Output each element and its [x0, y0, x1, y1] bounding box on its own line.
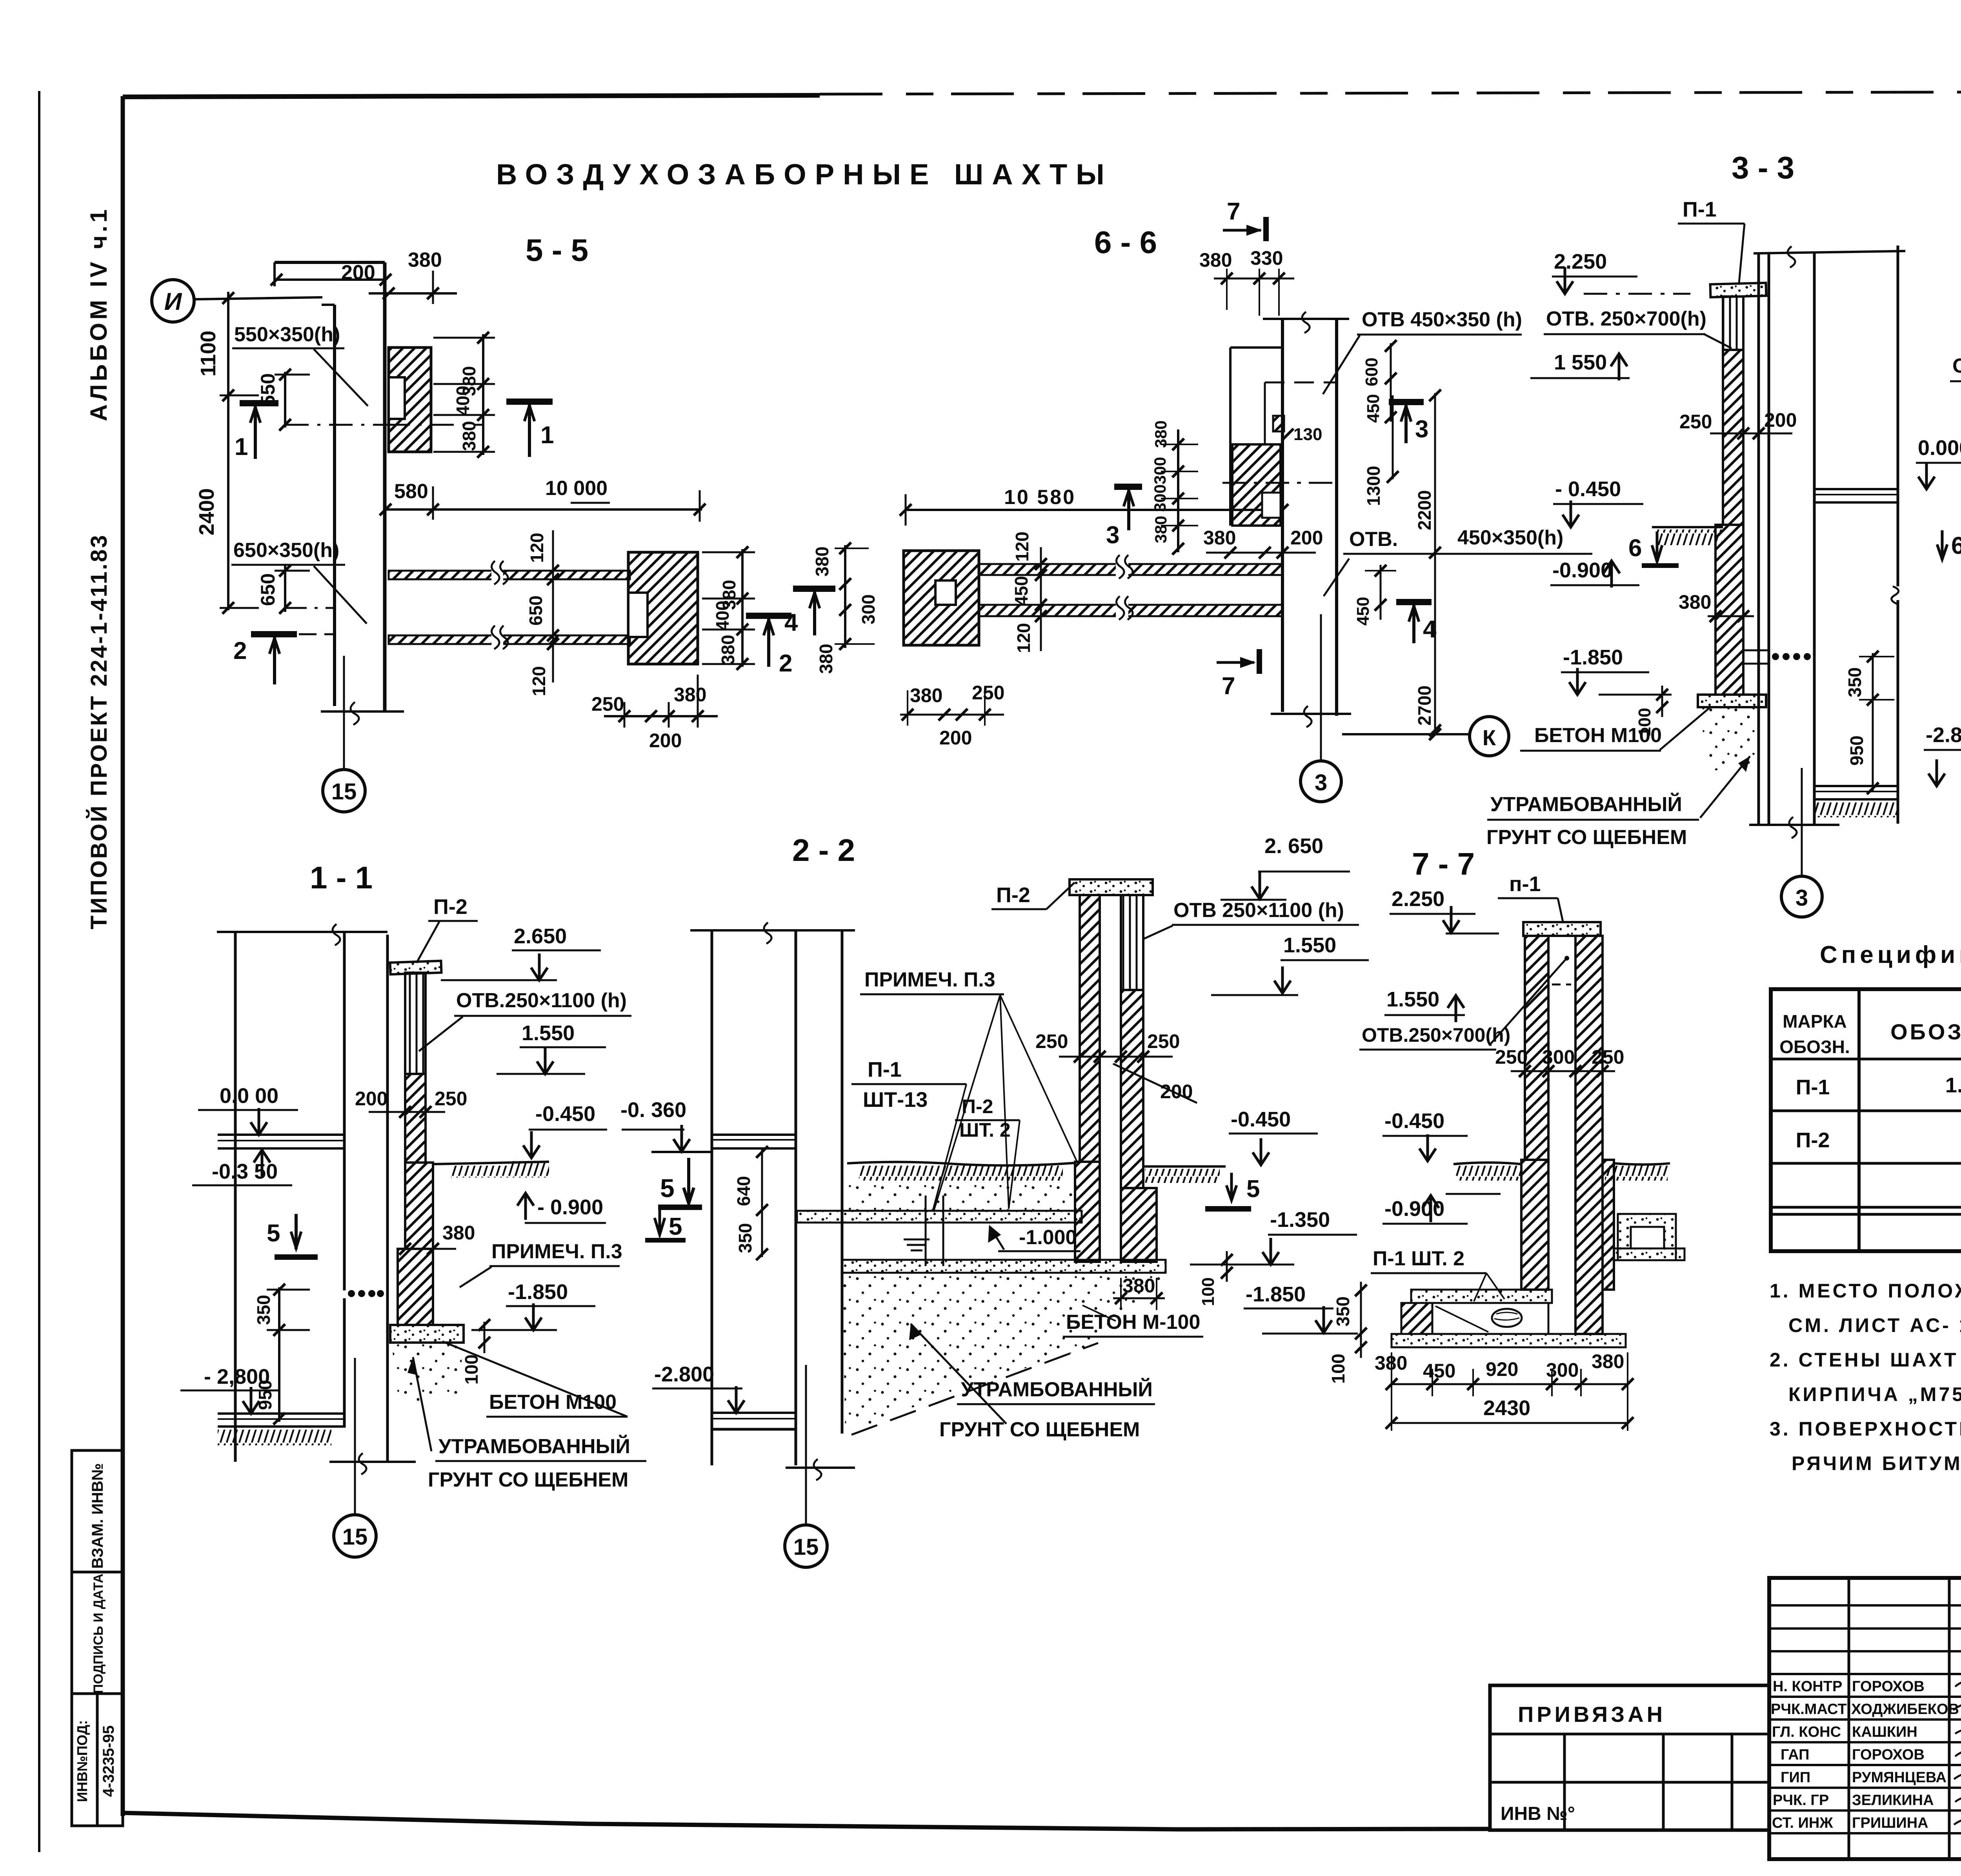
svg-text:380: 380 [1592, 1350, 1624, 1372]
svg-text:1100: 1100 [196, 331, 220, 377]
svg-text:950: 950 [1846, 735, 1867, 766]
soil band upper [847, 1181, 1079, 1211]
svg-text:100: 100 [461, 1354, 482, 1385]
svg-text:П-1: П-1 [1683, 198, 1717, 221]
name table texts [1771, 1678, 1959, 1831]
svg-text:2. 650: 2. 650 [1264, 834, 1323, 858]
axis 3 circle [1320, 614, 1322, 760]
svg-text:100: 100 [1328, 1354, 1348, 1384]
svg-text:380: 380 [408, 249, 442, 271]
privyazan box [1490, 1685, 1769, 1830]
svg-text:350: 350 [735, 1223, 755, 1253]
dim 650 left [284, 566, 286, 612]
svg-text:250: 250 [1592, 1046, 1624, 1068]
svg-text:350: 350 [1845, 667, 1865, 697]
svg-text:И: И [164, 288, 182, 315]
svg-text:200: 200 [355, 1088, 387, 1110]
svg-text:380: 380 [1151, 420, 1170, 448]
6 markers [1937, 530, 1947, 559]
duct break marks [1116, 560, 1128, 579]
svg-text:ВЗАМ. ИНВ№: ВЗАМ. ИНВ№ [89, 1463, 106, 1569]
axis circle 15 [323, 770, 365, 812]
frame top border solid part [123, 95, 820, 97]
dim 550 [284, 372, 286, 428]
svg-text:10 580: 10 580 [1004, 486, 1076, 509]
dims col 380/300/300/380 [1177, 429, 1179, 552]
ground line right of shaft [433, 1162, 549, 1164]
svg-text:1. МЕСТО ПОЛОЖЕНИЕ ВОЗДУХОЗА: 1. МЕСТО ПОЛОЖЕНИЕ ВОЗДУХОЗАБОРНЫХ ШАХТ … [1770, 1280, 1961, 1302]
svg-text:10 000: 10 000 [545, 477, 608, 500]
svg-text:3. ПОВЕРХНОСТИ СОПРИКАСАЮЩИЕС: 3. ПОВЕРХНОСТИ СОПРИКАСАЮЩИЕСЯ С ЗЕМЛЕЙ … [1770, 1417, 1961, 1440]
svg-text:380: 380 [910, 684, 942, 706]
duct bottom wall [979, 605, 1282, 616]
dims 350/950 [278, 1287, 280, 1422]
svg-text:300: 300 [1151, 457, 1169, 484]
dim column 380/300/380 right [844, 545, 846, 648]
chamber interior [1432, 1303, 1548, 1334]
svg-text:2.250: 2.250 [1554, 250, 1607, 273]
svg-text:БЕТОН М100: БЕТОН М100 [489, 1391, 617, 1414]
left hatched block [904, 551, 979, 645]
svg-text:380: 380 [674, 684, 706, 706]
svg-text:ПРИМЕЧ. П.3: ПРИМЕЧ. П.3 [864, 968, 995, 991]
svg-text:-2.800: -2.800 [1926, 723, 1961, 747]
svg-text:6: 6 [1951, 532, 1961, 559]
svg-text:П-2: П-2 [996, 883, 1030, 907]
svg-text:3 - 3: 3 - 3 [1732, 150, 1794, 185]
svg-text:ГРУНТ СО ЩЕБНЕМ: ГРУНТ СО ЩЕБНЕМ [1486, 826, 1687, 849]
svg-text:4: 4 [1423, 616, 1437, 643]
building wall lines [1757, 253, 1760, 825]
svg-text:120: 120 [1013, 623, 1034, 653]
svg-text:1 550: 1 550 [1554, 351, 1607, 374]
dims 600/450 [1390, 343, 1392, 422]
bottom break [786, 1467, 855, 1469]
П-1 top plate [1523, 922, 1601, 936]
svg-text:380: 380 [459, 421, 479, 451]
svg-text:380: 380 [816, 644, 836, 674]
svg-text:РЯЧИМ БИТУМОМ ЗА 2 РАЗА.: РЯЧИМ БИТУМОМ ЗА 2 РАЗА. [1792, 1452, 1961, 1474]
shaft opening stripes [1723, 297, 1743, 350]
svg-text:ИНВ №°: ИНВ №° [1501, 1803, 1575, 1824]
svg-text:-1.850: -1.850 [508, 1280, 568, 1304]
svg-text:15: 15 [342, 1524, 368, 1550]
svg-text:2: 2 [233, 637, 247, 664]
svg-text:650×350(h): 650×350(h) [233, 539, 339, 562]
water table symbol [904, 1239, 930, 1241]
svg-text:-0.450: -0.450 [1231, 1108, 1291, 1131]
svg-text:- 0.450: - 0.450 [1555, 477, 1621, 501]
svg-text:2200: 2200 [1414, 490, 1435, 530]
svg-text:2: 2 [779, 650, 792, 677]
svg-text:ТИПОВОЙ ПРОЕКТ 224-1-411.83: ТИПОВОЙ ПРОЕКТ 224-1-411.83 [86, 534, 112, 930]
dim line 1100/2400 [227, 292, 229, 610]
duct break marks [491, 567, 503, 583]
axis circle И [152, 280, 194, 322]
footing [390, 1325, 464, 1343]
wall top cap [275, 261, 385, 264]
section marker 4 right [793, 586, 835, 592]
shaft right wall hatched [1121, 990, 1143, 1188]
svg-text:450: 450 [1353, 597, 1373, 626]
svg-text:ЗЕЛИКИНА: ЗЕЛИКИНА [1852, 1792, 1934, 1809]
dim 100 right [1226, 1251, 1228, 1282]
footing slab [1698, 695, 1766, 707]
section marker 1 left [240, 400, 278, 406]
svg-text:РУМЯНЦЕВА: РУМЯНЦЕВА [1852, 1769, 1946, 1786]
svg-text:400: 400 [712, 600, 733, 631]
wall 5-5 left line [333, 305, 336, 706]
svg-text:350: 350 [1333, 1296, 1353, 1326]
svg-text:РЧК. ГР: РЧК. ГР [1773, 1792, 1829, 1809]
svg-text:640: 640 [733, 1176, 754, 1206]
shaft opening stripes [405, 973, 426, 1074]
svg-text:15: 15 [793, 1534, 819, 1560]
svg-text:ИНВ№ПОД:: ИНВ№ПОД: [74, 1720, 90, 1802]
svg-text:ОТВ. 250×700(h): ОТВ. 250×700(h) [1546, 308, 1706, 330]
svg-text:УТРАМБОВАННЫЙ: УТРАМБОВАННЫЙ [1490, 793, 1682, 816]
svg-text:ГРУНТ СО ЩЕБНЕМ: ГРУНТ СО ЩЕБНЕМ [428, 1468, 628, 1491]
upper duct outline [1229, 348, 1232, 526]
svg-text:ГРИШИНА: ГРИШИНА [1852, 1815, 1928, 1831]
svg-text:ОТВ.250×700(h): ОТВ.250×700(h) [1362, 1024, 1510, 1046]
svg-text:2700: 2700 [1414, 686, 1435, 726]
svg-text:3: 3 [1795, 885, 1808, 911]
svg-text:380: 380 [1203, 527, 1236, 549]
svg-text:300: 300 [1542, 1046, 1575, 1068]
dim 2200 / 2700 [1434, 393, 1436, 733]
top line with break [217, 931, 387, 933]
svg-text:ШТ. 2: ШТ. 2 [959, 1119, 1011, 1141]
svg-text:ОТВ 250×1100 (h): ОТВ 250×1100 (h) [1173, 899, 1344, 922]
svg-text:СТ. ИНЖ: СТ. ИНЖ [1772, 1815, 1833, 1831]
shaft right jamb stripes [1121, 895, 1143, 990]
svg-text:ОТВ.250×1100 (h): ОТВ.250×1100 (h) [456, 989, 627, 1012]
floor slab -2.800 [1814, 785, 1898, 787]
chamber left block [1401, 1303, 1432, 1334]
name table [1769, 1578, 1961, 1859]
right small duct element [1618, 1214, 1676, 1260]
svg-text:5: 5 [669, 1213, 682, 1240]
duct dims 120/450/120 [1040, 547, 1042, 651]
svg-text:380: 380 [1151, 516, 1170, 543]
svg-text:350: 350 [253, 1295, 274, 1325]
svg-text:580: 580 [394, 480, 428, 503]
shaft right wall [1575, 936, 1603, 1334]
svg-text:- 0.900: - 0.900 [537, 1195, 603, 1219]
5 marker small [655, 1205, 665, 1235]
floor slab 0.000 [218, 1134, 344, 1136]
dim 100 [484, 1322, 486, 1353]
svg-text:3: 3 [1415, 416, 1428, 443]
floor slab -2.800 [712, 1412, 796, 1414]
svg-text:1: 1 [540, 422, 554, 449]
svg-text:МАРКА: МАРКА [1783, 1011, 1847, 1032]
shaft wall hatched [1723, 350, 1743, 525]
big hatched block right [628, 552, 698, 664]
svg-text:380: 380 [1679, 591, 1711, 613]
svg-text:3: 3 [1315, 770, 1327, 795]
section marker 2 [251, 631, 297, 637]
svg-text:250: 250 [435, 1088, 467, 1110]
duct top wall [979, 564, 1282, 575]
svg-text:-0.900: -0.900 [1552, 559, 1612, 582]
ground right of shaft [1144, 1165, 1226, 1168]
svg-text:1. 243. 2: 1. 243. 2 [1945, 1074, 1961, 1097]
svg-text:-0.450: -0.450 [1384, 1109, 1444, 1133]
shaft wall hatched [405, 1074, 426, 1163]
svg-text:ХОДЖИБЕКОВ: ХОДЖИБЕКОВ [1851, 1701, 1959, 1718]
svg-text:-0.450: -0.450 [535, 1102, 595, 1126]
svg-text:-1.350: -1.350 [1270, 1208, 1330, 1232]
svg-text:250: 250 [1495, 1046, 1528, 1068]
svg-text:ОБОЗНАЧЕНИЕ: ОБОЗНАЧЕНИЕ [1890, 1019, 1961, 1044]
soil stipple below [842, 1275, 1166, 1434]
wall 5-5 right line [383, 262, 387, 711]
axis circle 15 [334, 1515, 376, 1557]
shaft left wall [1080, 895, 1100, 1162]
svg-text:6 - 6: 6 - 6 [1094, 225, 1157, 260]
svg-text:15: 15 [331, 779, 357, 804]
svg-text:200: 200 [1764, 409, 1797, 431]
svg-text:600: 600 [1362, 358, 1381, 386]
svg-text:5 - 5: 5 - 5 [526, 233, 588, 267]
svg-text:РЧК.МАСТ: РЧК.МАСТ [1771, 1701, 1847, 1718]
svg-text:КИРПИЧА „М75“ НА РАСТВОРЕ: КИРПИЧА „М75“ НА РАСТВОРЕ „ М-50“ [1788, 1383, 1961, 1405]
svg-text:250: 250 [1679, 411, 1712, 433]
svg-text:2.650: 2.650 [514, 924, 567, 948]
svg-text:ВОЗДУХОЗАБОРНЫЕ ШАХТЫ: ВОЗДУХОЗАБОРНЫЕ ШАХТЫ [496, 158, 1113, 191]
svg-text:2.250: 2.250 [1392, 887, 1444, 911]
svg-text:ГИП: ГИП [1781, 1769, 1810, 1786]
svg-text:250: 250 [1147, 1030, 1180, 1052]
svg-text:-1.000: -1.000 [1019, 1226, 1077, 1249]
svg-text:450: 450 [1423, 1360, 1455, 1382]
svg-text:БЕТОН М-100: БЕТОН М-100 [1066, 1311, 1200, 1334]
svg-text:450×350(h): 450×350(h) [1457, 526, 1563, 549]
svg-text:7: 7 [1222, 673, 1235, 700]
svg-text:920: 920 [1486, 1358, 1518, 1380]
svg-text:200: 200 [1290, 527, 1323, 549]
svg-text:380: 380 [442, 1222, 475, 1244]
center hatched block [1232, 444, 1281, 526]
left stamp column table [72, 1450, 123, 1826]
svg-text:380: 380 [718, 635, 738, 665]
strip break marks [925, 1195, 927, 1266]
leader to utrambovanny [911, 1324, 1006, 1424]
svg-text:100: 100 [1199, 1277, 1218, 1306]
svg-text:П-2: П-2 [433, 895, 468, 919]
svg-text:п-1: п-1 [1509, 872, 1541, 896]
duct top wall [389, 571, 630, 579]
frame top border dashed part [820, 91, 1961, 94]
svg-text:1 - 1: 1 - 1 [310, 860, 373, 895]
building wall lines [711, 930, 713, 1465]
svg-text:ГОРОХОВ: ГОРОХОВ [1852, 1678, 1925, 1695]
svg-text:300: 300 [858, 594, 879, 624]
section marker 2 right [746, 613, 791, 619]
svg-text:2430: 2430 [1483, 1396, 1530, 1420]
svg-text:250: 250 [591, 693, 624, 715]
svg-text:3: 3 [1106, 522, 1119, 549]
svg-text:ГРУНТ СО ЩЕБНЕМ: ГРУНТ СО ЩЕБНЕМ [939, 1418, 1140, 1441]
svg-text:650: 650 [526, 595, 546, 626]
svg-text:К: К [1483, 725, 1496, 750]
svg-text:1.550: 1.550 [522, 1021, 575, 1045]
section marker 7 bottom [1217, 661, 1254, 664]
dim 1300 [1392, 395, 1394, 479]
svg-text:0.000: 0.000 [1918, 436, 1961, 460]
dims right of block [741, 549, 744, 667]
floor slab 0.000 [1814, 488, 1898, 490]
dots row [1772, 653, 1779, 660]
svg-text:-2.800: -2.800 [654, 1363, 714, 1386]
svg-text:6: 6 [1628, 535, 1642, 562]
dims 640/350 [761, 1149, 763, 1257]
dims 350/100 [1360, 1282, 1362, 1358]
chamber bottom plate [1392, 1334, 1626, 1347]
svg-text:130: 130 [1293, 425, 1322, 444]
duct bottom wall [389, 635, 630, 644]
ground line right of wall [847, 1162, 1075, 1165]
svg-text:1300: 1300 [1363, 466, 1384, 506]
svg-text:БЕТОН М100: БЕТОН М100 [1534, 724, 1662, 747]
П-2 top plate [390, 961, 442, 975]
svg-text:СМ. ЛИСТ АС- 13,14.: СМ. ЛИСТ АС- 13,14. [1788, 1314, 1961, 1336]
right dim col of lintel [482, 334, 484, 455]
svg-text:ОБОЗН.: ОБОЗН. [1779, 1037, 1850, 1057]
wall bottom line with break [321, 710, 404, 713]
axis leader line [195, 297, 322, 299]
dims 350/950 [1872, 653, 1874, 792]
duct dims 120/650/120 [552, 530, 554, 682]
dim 450 right of duct [1380, 565, 1382, 620]
svg-text:0.0 00: 0.0 00 [220, 1084, 278, 1108]
svg-text:АЛЬБОМ IV ч.1: АЛЬБОМ IV ч.1 [85, 206, 112, 421]
svg-text:450: 450 [1011, 576, 1031, 606]
svg-text:120: 120 [527, 533, 547, 563]
svg-text:ОТВ 450×350 (h): ОТВ 450×350 (h) [1362, 308, 1522, 331]
svg-text:2 - 2: 2 - 2 [792, 833, 855, 868]
svg-text:300: 300 [1546, 1359, 1579, 1381]
duct axis dash line upper [285, 424, 384, 426]
frame left border [121, 96, 125, 1816]
svg-text:380: 380 [1199, 249, 1232, 271]
centerline to axis 15 [354, 1358, 356, 1515]
svg-text:УТРАМБОВАННЫЙ: УТРАМБОВАННЫЙ [961, 1378, 1153, 1401]
svg-text:380: 380 [812, 546, 832, 577]
chamber plate strip [1411, 1290, 1552, 1303]
svg-text:450: 450 [1364, 394, 1383, 423]
svg-text:1.550: 1.550 [1283, 933, 1336, 957]
axis circle 15 [785, 1525, 827, 1567]
dim 100 [1661, 686, 1663, 717]
axis K line and circle [1342, 733, 1469, 735]
svg-text:КАШКИН: КАШКИН [1852, 1724, 1917, 1740]
svg-text:5: 5 [267, 1220, 280, 1247]
plate dots row [348, 1290, 355, 1297]
right wall verticals [1281, 319, 1284, 712]
svg-text:П-2: П-2 [1796, 1128, 1830, 1152]
svg-text:330: 330 [1250, 247, 1283, 269]
section marker 1 right [506, 398, 553, 405]
svg-text:ШТ-13: ШТ-13 [863, 1088, 928, 1112]
signatures scribbles [1953, 1681, 1961, 1842]
svg-text:120: 120 [1012, 531, 1032, 562]
svg-text:-1.850: -1.850 [1563, 646, 1623, 669]
svg-text:300: 300 [1151, 484, 1169, 512]
svg-text:250: 250 [972, 682, 1004, 704]
svg-text:550×350(h): 550×350(h) [234, 323, 340, 346]
shaft left wall [1525, 936, 1548, 1160]
svg-text:4-3235-95: 4-3235-95 [100, 1725, 117, 1797]
svg-text:ПРИМЕЧ. П.3: ПРИМЕЧ. П.3 [491, 1240, 622, 1263]
footing strip [842, 1260, 1166, 1273]
svg-text:Н. КОНТР: Н. КОНТР [1773, 1678, 1842, 1695]
svg-text:5: 5 [1246, 1175, 1260, 1203]
svg-text:1.550: 1.550 [1386, 988, 1439, 1011]
svg-text:5: 5 [660, 1174, 675, 1203]
svg-text:950: 950 [255, 1380, 275, 1410]
svg-text:П-1: П-1 [868, 1058, 902, 1081]
centerline to axis 15 [343, 656, 345, 770]
svg-text:7: 7 [1227, 198, 1240, 225]
hatched lintel block top [389, 348, 431, 452]
svg-text:7 - 7: 7 - 7 [1412, 846, 1475, 881]
svg-text:-1.850: -1.850 [1246, 1283, 1306, 1306]
svg-text:200: 200 [939, 727, 972, 749]
svg-text:ПРИВЯЗАН: ПРИВЯЗАН [1518, 1702, 1666, 1727]
svg-text:-0. 360: -0. 360 [620, 1098, 686, 1122]
svg-text:250: 250 [1035, 1030, 1068, 1052]
svg-text:ГАП: ГАП [1781, 1747, 1809, 1763]
П-1 top plate [1710, 283, 1766, 297]
svg-text:П-2: П-2 [962, 1095, 993, 1117]
building wall lines [234, 932, 237, 1462]
svg-text:1: 1 [235, 433, 248, 460]
svg-text:ПОДПИСЬ И ДАТА: ПОДПИСЬ И ДАТА [91, 1574, 106, 1694]
interior dash [1552, 984, 1571, 986]
buried plates strip [797, 1211, 1082, 1223]
floor slab -2.800 [218, 1412, 344, 1415]
svg-text:120: 120 [529, 666, 549, 696]
svg-text:400: 400 [453, 386, 473, 416]
page outer left margin line [38, 91, 40, 1852]
svg-text:200: 200 [649, 730, 682, 751]
svg-text:УТРАМБОВАННЫЙ: УТРАМБОВАННЫЙ [438, 1435, 630, 1458]
axis 3 circle [1801, 768, 1803, 876]
frame bottom border [123, 1813, 1489, 1829]
svg-text:ГОРОХОВ: ГОРОХОВ [1852, 1747, 1925, 1763]
section marker 3 mid [1114, 484, 1142, 490]
svg-text:2. СТЕНЫ ШАХТ ВЫПОЛНЯТЬ ИЗ: 2. СТЕНЫ ШАХТ ВЫПОЛНЯТЬ ИЗ ГЛИНЯНОГО ПОЛ… [1770, 1349, 1961, 1371]
svg-text:ОТВ.250×700(h): ОТВ.250×700(h) [1952, 355, 1961, 377]
svg-text:Спецификация железобетонных: Спецификация железобетонных изделий [1820, 941, 1961, 968]
svg-text:П-1 ШТ. 2: П-1 ШТ. 2 [1373, 1247, 1464, 1270]
svg-text:650: 650 [257, 573, 279, 606]
svg-text:ГЛ. КОНС: ГЛ. КОНС [1772, 1724, 1841, 1740]
floor slab -0.360 [712, 1134, 796, 1136]
svg-text:П-1: П-1 [1796, 1075, 1830, 1099]
svg-text:ОТВ.: ОТВ. [1349, 528, 1398, 551]
section marker 4 [1396, 599, 1432, 605]
svg-text:2400: 2400 [195, 488, 218, 535]
section marker 3 right [1389, 399, 1424, 405]
bottom line with break [329, 1461, 416, 1463]
svg-text:-0.3 50: -0.3 50 [212, 1160, 278, 1183]
shaft П-2 plate [1070, 879, 1153, 895]
ground landing line [651, 1151, 712, 1153]
